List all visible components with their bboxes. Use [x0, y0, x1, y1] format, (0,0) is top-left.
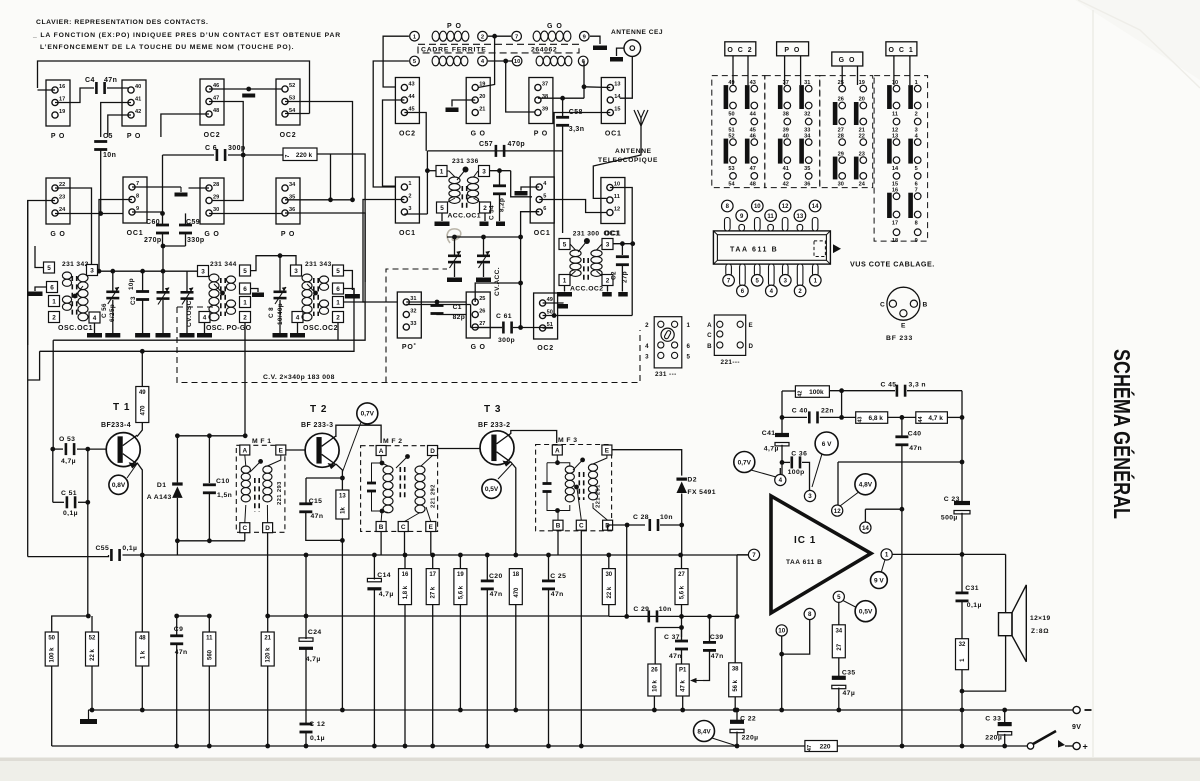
- svg-text:0,5V: 0,5V: [485, 486, 499, 493]
- main mid rail y555: [123, 554, 749, 556]
- svg-text:30: 30: [213, 207, 219, 213]
- wire pin5 right ground: [344, 271, 353, 291]
- junction C14 col: [372, 553, 377, 558]
- svg-text:100k: 100k: [809, 389, 824, 396]
- svg-text:7: 7: [752, 552, 756, 559]
- svg-text:5: 5: [47, 265, 51, 272]
- ground OSC.OC2 pin4: [290, 333, 305, 338]
- junction trimmer top: [161, 269, 166, 274]
- transistor T2 BF233-3: [305, 433, 339, 469]
- junction C55/T1 emitter column: [140, 553, 145, 558]
- svg-text:38: 38: [783, 111, 789, 117]
- svg-text:13: 13: [614, 81, 620, 87]
- svg-text:D: D: [430, 448, 435, 455]
- svg-text:1: 1: [915, 80, 918, 86]
- svg-text:5: 5: [543, 193, 546, 199]
- svg-text:4: 4: [779, 477, 783, 484]
- wire T1 base left: [52, 449, 54, 502]
- wire MF2-C down to rail: [404, 532, 406, 556]
- svg-text:50: 50: [547, 309, 553, 315]
- wire C59/C60 drop to osc rail: [162, 246, 164, 271]
- OSC.OC2 right coils: [319, 276, 328, 290]
- svg-text:44: 44: [918, 416, 924, 423]
- junction pin10 column / ACC.OC2 pin3: [630, 241, 635, 246]
- svg-text:470p: 470p: [508, 141, 526, 148]
- svg-text:500µ: 500µ: [941, 515, 958, 522]
- svg-text:OSC.OC1: OSC.OC1: [58, 325, 93, 332]
- svg-text:0,7V: 0,7V: [361, 411, 375, 418]
- svg-text:C: C: [880, 302, 885, 309]
- junction C37 top: [679, 625, 684, 630]
- svg-text:5: 5: [440, 205, 444, 212]
- svg-text:47: 47: [807, 745, 813, 751]
- svg-text:22n: 22n: [821, 408, 834, 415]
- junction: [579, 744, 584, 749]
- wire pin53 right to column: [285, 102, 353, 200]
- wire pin32 right down to C61 line: [406, 304, 470, 306]
- wire C15 down to R13 column: [306, 512, 343, 540]
- svg-text:C 28: C 28: [633, 514, 649, 521]
- svg-text:C: C: [401, 524, 406, 531]
- svg-text:CV.ACC.: CV.ACC.: [494, 267, 501, 296]
- svg-text:C: C: [707, 332, 712, 339]
- svg-text:8: 8: [136, 193, 139, 199]
- capacitor C61 300p: [502, 322, 513, 334]
- MF1 right coil: [263, 466, 272, 502]
- wafer contacts PO right: [799, 80, 812, 188]
- svg-text:C 51: C 51: [61, 490, 77, 497]
- junction: [207, 744, 212, 749]
- wire pin5 down to R34: [838, 602, 840, 624]
- svg-text:T 2: T 2: [310, 404, 327, 415]
- wire emitter node to C15: [306, 477, 342, 479]
- wire R26 bottom: [653, 696, 655, 710]
- svg-text:B: B: [556, 523, 561, 530]
- wire C33 column: [1004, 710, 1006, 724]
- switch block S-PO-d (pins 37,38,39): [529, 78, 553, 138]
- svg-text:P1: P1: [679, 668, 687, 674]
- ground CVACC 1: [447, 278, 462, 283]
- svg-text:231 ---: 231 ---: [655, 371, 677, 378]
- TAA pin 3: [783, 264, 789, 276]
- resistor R34 27: [832, 625, 845, 658]
- svg-text:+: +: [1083, 742, 1089, 752]
- MF2 right coil: [415, 466, 425, 513]
- svg-text:4,7µ: 4,7µ: [379, 591, 394, 598]
- resistor R48 1k: [136, 632, 149, 666]
- junction C40 left: [780, 415, 785, 420]
- svg-text:13: 13: [797, 214, 804, 220]
- svg-text:C60: C60: [146, 219, 160, 226]
- wire pin2 down bus: [337, 323, 339, 341]
- junction right rail: [960, 415, 965, 420]
- BF233 pinout circle: [887, 287, 920, 320]
- resistor R52 22k: [86, 632, 99, 666]
- wire ACC.OC1 pin1 left: [427, 170, 436, 172]
- junction: [430, 744, 435, 749]
- wire pin3 right: [404, 213, 427, 215]
- transistor T3 BF233-2: [480, 431, 514, 467]
- svg-text:4,7 k: 4,7 k: [928, 415, 943, 422]
- svg-text:19: 19: [479, 81, 485, 87]
- IC1 amplifier triangle: [771, 496, 871, 613]
- diode D1 AA143: [172, 482, 183, 498]
- MF3 pin A: [552, 445, 562, 455]
- wire C14 column: [373, 555, 375, 580]
- potentiometer P1 47k: [676, 664, 689, 696]
- svg-text:3: 3: [201, 268, 205, 275]
- svg-text:ACC.OC2: ACC.OC2: [570, 286, 603, 293]
- capacitor C2 27p: [616, 255, 629, 266]
- MF3 dashed box: [536, 445, 612, 531]
- svg-text:3: 3: [645, 354, 649, 361]
- wafer dashed box OC2: [712, 76, 765, 188]
- wire C24 column: [305, 616, 307, 639]
- wire node5 left down to OC1 pin1: [373, 61, 409, 187]
- svg-text:52: 52: [728, 133, 734, 139]
- junction C10 bottom: [207, 538, 212, 543]
- svg-text:9: 9: [136, 206, 139, 212]
- svg-text:C41: C41: [762, 430, 776, 437]
- wire pin30 right: [209, 213, 285, 215]
- IC1 pin 12: [832, 505, 843, 516]
- junction pin14 link: [900, 507, 905, 512]
- junction: [265, 744, 270, 749]
- OSC.OC1 main coil: [78, 274, 88, 321]
- junction pin8/osc rail: [97, 269, 102, 274]
- svg-text:14: 14: [614, 94, 621, 100]
- wafer contacts PO left: [778, 80, 791, 188]
- IC1 pin 7: [748, 549, 759, 560]
- TAA pin 9: [739, 224, 745, 231]
- ground antenna CEJ: [610, 57, 623, 62]
- svg-text:10n: 10n: [659, 606, 672, 613]
- resistor R27 5.6k: [675, 569, 688, 605]
- capacitor C24 4.7u: [299, 638, 313, 650]
- wire C35 column: [838, 658, 840, 678]
- switch block S-GO-a (pins 22,23,24): [46, 178, 70, 238]
- svg-text:48: 48: [213, 108, 219, 114]
- CVACC trimmer pair: [448, 251, 461, 268]
- wire pin4 down: [297, 323, 299, 334]
- C.V. dashed coupling to CVACC: [386, 269, 447, 383]
- junction R42/C45: [839, 388, 844, 393]
- capacitor C5 10n: [94, 140, 107, 151]
- switch block S-GO-d (pins 25,26,27): [466, 292, 490, 351]
- svg-text:14: 14: [892, 166, 899, 172]
- capacitor C20 47n: [481, 580, 494, 591]
- svg-text:221 291: 221 291: [596, 484, 602, 508]
- wire top feedback rail: [829, 390, 895, 392]
- OSC.PO-GO right coils: [226, 276, 235, 290]
- wire pin54 to top frame: [285, 113, 310, 115]
- wire MF3-C down to bottom rail: [580, 530, 582, 746]
- ground ACC.OC2 pin1: [557, 292, 572, 297]
- junction y462 rail: [960, 460, 965, 465]
- tap: [313, 291, 318, 296]
- svg-text:2: 2: [645, 322, 649, 329]
- resistor R7? 220k horizontal: [283, 148, 317, 161]
- svg-text:D: D: [265, 525, 270, 532]
- svg-text:C 40: C 40: [792, 408, 808, 415]
- svg-text:45: 45: [408, 106, 414, 112]
- ACC.OC2 left coil: [570, 250, 581, 276]
- wire MF1-D down to R21: [267, 533, 269, 616]
- svg-text:40: 40: [135, 84, 141, 90]
- svg-text:560: 560: [207, 649, 213, 660]
- svg-text:E: E: [605, 447, 610, 454]
- voltage circle 0.5V at pin5: [855, 601, 876, 622]
- wire base column: [87, 449, 89, 616]
- wire C61 line: [471, 327, 502, 329]
- wire pin5 right to pin12 link: [539, 200, 607, 213]
- svg-text:16: 16: [59, 84, 65, 90]
- svg-text:G O: G O: [471, 131, 486, 138]
- wire MF2-B down to rail: [380, 532, 382, 556]
- svg-text:VUS COTE CABLAGE.: VUS COTE CABLAGE.: [850, 260, 935, 269]
- wire C58 column down to ACC.OC2: [562, 98, 564, 116]
- junction C58 top: [560, 96, 565, 101]
- svg-text:FX 5491: FX 5491: [687, 489, 716, 496]
- svg-text:34: 34: [289, 182, 296, 188]
- MF2 left coil: [383, 466, 393, 513]
- svg-text:9 V: 9 V: [874, 577, 884, 584]
- wafer contacts OC2 right: [745, 80, 758, 188]
- wire pin6 right to ground: [251, 289, 259, 293]
- svg-text:231 336: 231 336: [452, 158, 479, 165]
- junction C15/R13: [340, 538, 345, 543]
- switch block S-OC1-c (pins 1,2,3): [395, 177, 419, 237]
- svg-text:C20: C20: [489, 573, 503, 580]
- wire pin23 left: [28, 201, 55, 346]
- ground OC2 pin49: [558, 304, 568, 309]
- svg-text:20: 20: [479, 94, 485, 100]
- page right edge faint line: [1092, 10, 1094, 757]
- junction R11 top: [207, 614, 212, 619]
- svg-text:21: 21: [479, 106, 485, 112]
- junction CVACC line: [518, 235, 523, 240]
- svg-text:24: 24: [59, 207, 66, 213]
- svg-text:1: 1: [885, 552, 889, 559]
- capacitor C35 47u: [832, 676, 846, 689]
- wire pin9 right to C60: [132, 211, 163, 213]
- svg-text:52: 52: [289, 83, 295, 89]
- pointer 6V to pin3: [812, 454, 822, 487]
- svg-text:1: 1: [563, 277, 567, 284]
- MF1 pin D: [263, 523, 273, 533]
- junction pin35/pin53 column: [350, 197, 355, 202]
- svg-text:14: 14: [862, 525, 869, 532]
- capacitor C6 300p: [216, 149, 227, 161]
- svg-text:C57: C57: [479, 141, 493, 148]
- svg-text:29: 29: [838, 151, 844, 157]
- junction C10 top: [207, 433, 212, 438]
- svg-text:6: 6: [50, 284, 54, 291]
- svg-text:3: 3: [808, 493, 812, 500]
- wire D2 down: [681, 494, 683, 556]
- switch block S-PO-a (pins 16,17,19): [46, 80, 70, 140]
- svg-text:44: 44: [750, 111, 757, 117]
- voltage circle 8.4V: [694, 721, 715, 742]
- ground C3: [135, 333, 150, 338]
- svg-text:G O: G O: [839, 57, 856, 64]
- TAA pin 11: [768, 224, 774, 231]
- svg-text:BF 233: BF 233: [886, 335, 913, 342]
- junction emitter branch: [340, 476, 345, 481]
- svg-text:C 12: C 12: [309, 721, 325, 728]
- svg-text:P O: P O: [447, 23, 462, 30]
- svg-text:T 1: T 1: [113, 402, 130, 413]
- wire 220k right lead down to pin35 line: [317, 154, 365, 213]
- wire R52 bottom to rail A: [91, 666, 93, 710]
- wire node9 to ground: [590, 36, 600, 44]
- wire pin16: [38, 89, 56, 91]
- wire pin45 right down: [404, 113, 426, 151]
- MF1 pin C: [240, 523, 250, 533]
- svg-text:18: 18: [892, 238, 898, 244]
- ACC.OC2 pin1 ground: [564, 286, 566, 292]
- svg-text:14: 14: [812, 204, 819, 210]
- capacitor C33 220u: [998, 722, 1012, 735]
- junction D2 col: [678, 553, 683, 558]
- capacitor C4 47n: [95, 82, 106, 94]
- junction R50/R52: [86, 614, 91, 619]
- junction R13/rail: [340, 708, 345, 713]
- svg-text:6: 6: [543, 206, 546, 212]
- oscillator bottom bus B: [40, 289, 354, 352]
- wafer label PO: [777, 42, 809, 56]
- junction C36 branch: [780, 460, 785, 465]
- resistor R19 5.6k: [454, 569, 467, 605]
- svg-text:10: 10: [778, 628, 785, 635]
- svg-text:10n: 10n: [103, 152, 116, 159]
- MF3 pin C: [576, 520, 586, 530]
- svg-text:37: 37: [542, 81, 548, 87]
- svg-text:37: 37: [783, 80, 789, 86]
- wafer contacts OC1 left: [887, 80, 900, 244]
- OSC.OC1 left small coils: [62, 272, 71, 286]
- wire C9-R11 link: [177, 615, 210, 617]
- svg-text:27: 27: [678, 572, 685, 578]
- junction MF3 top: [555, 460, 560, 465]
- junction C29 right: [679, 614, 684, 619]
- svg-text:220: 220: [820, 744, 831, 751]
- junction R32/rail B: [960, 744, 965, 749]
- ACC.OC1 left coil: [449, 177, 460, 203]
- svg-text:0,1µ: 0,1µ: [967, 602, 982, 609]
- diode D2 FX5491: [676, 478, 687, 494]
- svg-text:19: 19: [457, 572, 464, 578]
- resistor R42 100k: [795, 386, 829, 398]
- svg-text:1: 1: [52, 298, 56, 305]
- junction: [403, 744, 408, 749]
- svg-text:C 29: C 29: [633, 606, 649, 613]
- svg-text:47n: 47n: [711, 653, 724, 660]
- OSC.OC2 main coil: [302, 274, 312, 321]
- junction R19/rail: [458, 708, 463, 713]
- svg-text:3: 3: [408, 206, 411, 212]
- wire pin27 right: [475, 327, 502, 329]
- capacitor C31 0.1u: [956, 592, 969, 603]
- switch block S-PO-b (pins 40,41,42): [122, 80, 146, 140]
- OSC.OC1 tap dot and slant: [73, 294, 78, 299]
- resistor R50 100k: [45, 632, 58, 666]
- svg-text:27: 27: [479, 321, 485, 327]
- junction 220k/pin35: [328, 197, 333, 202]
- junction C9 top: [174, 614, 179, 619]
- svg-text:C 22: C 22: [740, 716, 756, 723]
- svg-text:10p: 10p: [128, 278, 135, 290]
- capacitor C56 6/25p trimmer: [106, 287, 119, 304]
- TAA pin 2: [797, 264, 803, 286]
- svg-text:0,8V: 0,8V: [112, 482, 126, 489]
- svg-text:4: 4: [203, 314, 207, 321]
- svg-text:31: 31: [410, 296, 416, 302]
- svg-text:A: A: [555, 447, 560, 454]
- wire pin7 left: [737, 554, 748, 556]
- svg-text:13: 13: [339, 494, 346, 500]
- svg-text:41: 41: [783, 166, 789, 172]
- ground C2: [618, 292, 628, 297]
- svg-text:G O: G O: [471, 344, 486, 351]
- wire pin4 down: [204, 323, 206, 334]
- wire pin51 right: [543, 327, 553, 329]
- svg-text:_ LA FONCTION (EX:PO) INDIQUEE: _ LA FONCTION (EX:PO) INDIQUEE PRES D’UN…: [32, 32, 341, 39]
- junction C54 top: [497, 168, 502, 173]
- svg-text:4: 4: [296, 314, 300, 321]
- svg-text:C 6: C 6: [205, 145, 217, 152]
- svg-text:P O: P O: [51, 133, 65, 140]
- svg-text:20: 20: [859, 97, 865, 103]
- capacitor C22 220u: [730, 720, 744, 733]
- junction R30 top: [606, 553, 611, 558]
- voltage circle 0.7V at pin4: [734, 452, 755, 473]
- pointer 0.7V to emitter node: [342, 422, 361, 472]
- junction P1/rail: [680, 708, 685, 713]
- wire C22 column: [736, 710, 738, 722]
- wire R32 down: [961, 670, 963, 746]
- MF3 pin D: [603, 520, 613, 530]
- IC1 pin 10: [776, 625, 787, 636]
- svg-text:0,5V: 0,5V: [859, 609, 873, 616]
- circled node 2: [478, 31, 488, 41]
- capacitor C1 82p: [431, 304, 444, 315]
- junction C22 bottom: [735, 744, 740, 749]
- capacitor C36 100p: [791, 456, 802, 468]
- resistor R21 120k: [261, 632, 274, 666]
- switch block S-OC2-c (pins 43,44,45): [395, 78, 419, 138]
- connector 231: [654, 317, 682, 368]
- junction output/C23: [960, 552, 965, 557]
- ground ACC.OC2 pin2: [602, 292, 612, 297]
- svg-text:C 54: C 54: [489, 205, 496, 220]
- ACC.OC1 tap dot: [463, 167, 469, 173]
- wire pin50 right long: [543, 315, 633, 317]
- wire pin6 left down: [521, 212, 540, 328]
- svg-text:C10: C10: [216, 478, 230, 485]
- wire ACC.OC1 coil links: [447, 171, 455, 177]
- svg-text:TAA 611 B: TAA 611 B: [786, 559, 822, 566]
- svg-text:2: 2: [408, 193, 411, 199]
- junction pin46-52: [246, 87, 251, 92]
- wire C55 left: [28, 555, 109, 557]
- svg-text:6: 6: [243, 286, 247, 293]
- svg-text:100 k: 100 k: [50, 647, 56, 663]
- svg-text:10n: 10n: [660, 514, 673, 521]
- wire right column: [961, 391, 963, 503]
- wire bus to T1 resistor column: [141, 351, 143, 386]
- junction R18/rail: [513, 708, 518, 713]
